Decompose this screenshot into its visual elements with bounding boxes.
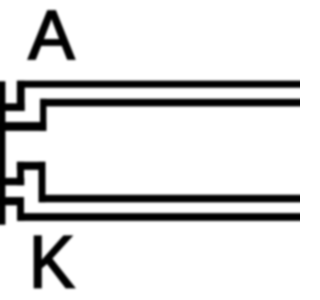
wire: short bar SB (bottom half)	[17, 162, 46, 170]
wire: top conductor T1 (runs off right edge)	[17, 81, 304, 88]
wire: bottom conductor T4 (runs off right edge)	[18, 213, 305, 221]
wire: second vertical step V2b (bottom)	[39, 162, 46, 203]
wire: second vertical step V2 (top)	[40, 99, 46, 131]
svg-text:A: A	[28, 0, 75, 74]
wire: lower stub from bus to first step (bottom half)	[0, 197, 24, 205]
svg-text:K: K	[29, 221, 75, 300]
wire: third conductor T3 (runs off right edge)	[39, 195, 305, 203]
wire: first vertical step V1b (bottom)	[17, 197, 24, 221]
wire: left vertical bus (device lead between A and K)	[0, 81, 5, 225]
wire: first vertical step V1 (top)	[17, 81, 25, 111]
wire: lower stub from bus to second step (top half)	[0, 122, 46, 131]
wire: riser joining short bar to bus stub (bottom half)	[17, 162, 24, 186]
wire: upper stub from bus to short-bar riser (bottom half)	[0, 178, 24, 186]
wire: second conductor T2 (runs off right edge)	[40, 99, 305, 107]
wire: upper stub from bus to first step (top half)	[0, 103, 25, 111]
